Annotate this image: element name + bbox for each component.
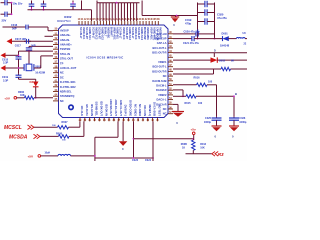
capacitor C02A	[193, 32, 196, 35]
svg-text:+5V: +5V	[28, 154, 35, 158]
offpage arrow	[1, 53, 6, 58]
svg-text:1K: 1K	[182, 147, 185, 150]
pin 47 right, name BO2-OUT-L	[168, 65, 173, 68]
pin 46 right, name VREF1	[168, 61, 173, 64]
pin 42 bottom, name NO-CON	[142, 118, 145, 122]
svg-text:AGND-SC3: AGND-SC3	[128, 27, 131, 40]
svg-text:C023: C023	[132, 159, 139, 161]
pin 49 right, name NC	[168, 75, 173, 78]
pin 44 right, name BO1-OUT-R	[168, 51, 173, 54]
pin 56 left, name STAL-OUT	[53, 57, 59, 60]
svg-text:1000p: 1000p	[239, 121, 247, 124]
pin 45 right, name	[168, 56, 173, 59]
ground arrow 0	[122, 121, 125, 141]
capacitor C011	[42, 1, 45, 5]
node junction	[176, 15, 178, 17]
pin 12 top, name SC1-IN-RT	[84, 21, 87, 25]
svg-text:AGND-SC2: AGND-SC2	[100, 27, 103, 40]
svg-text:10K: 10K	[200, 147, 205, 150]
svg-text:R006: R006	[18, 91, 25, 94]
pin 32 top, name AVDD-MN1	[145, 21, 148, 25]
svg-text:R015: R015	[185, 102, 192, 105]
ground 0	[229, 124, 239, 128]
wire DVDD riser	[93, 137, 96, 161]
svg-text:AVDD-SC3: AVDD-SC3	[122, 27, 125, 40]
svg-text:R00B: R00B	[181, 143, 187, 146]
pin 62 left, name D-CTRL-SD2	[53, 85, 59, 88]
svg-text:+5V: +5V	[4, 96, 11, 100]
resistor R014	[197, 83, 208, 86]
wire drops to IC top pins	[96, 3, 99, 21]
svg-text:SC3-IN-RT: SC3-IN-RT	[125, 27, 128, 40]
wire ANA-IN- row	[45, 35, 54, 38]
pin 52 left, name ANA-IN-	[53, 38, 59, 41]
pin 37 bottom, name ADR-CL-OUT	[117, 118, 120, 122]
pin 43 bottom, name RESET-Q	[146, 118, 149, 122]
wire row6	[173, 73, 214, 76]
pin 31 top, name MONO-INP	[142, 21, 145, 25]
capacitor C019	[17, 73, 20, 75]
pin 60 left, name DC	[53, 76, 59, 79]
ground 0	[212, 124, 222, 128]
diode D002	[211, 57, 218, 62]
wire row1	[173, 32, 193, 35]
pin 29 bottom, name I2C-CLK	[79, 118, 82, 122]
svg-text:9K: 9K	[231, 60, 234, 63]
pin 43 right, name BO1-OUT-L	[168, 47, 173, 50]
svg-text:10K: 10K	[20, 94, 25, 97]
pin 25 top, name SC3-IN-RT	[123, 21, 126, 25]
svg-text:C02A 47u 25v: C02A 47u 25v	[184, 31, 201, 34]
svg-text:IC002: IC002	[64, 15, 72, 19]
wire to D4	[19, 78, 36, 81]
node junctions	[197, 38, 199, 40]
svg-text:D002: D002	[219, 60, 226, 63]
pin 33 bottom, name I2S-DK-OUT	[98, 118, 101, 122]
net R3	[212, 152, 218, 157]
pin 33 top, name VSUP-ADC	[148, 21, 151, 25]
pin 53 left, name ANA-ND+	[53, 43, 59, 46]
svg-text:1000p: 1000p	[204, 121, 212, 124]
pin 13 top, name AGND-SC1	[87, 21, 90, 25]
pin 57 left, name TP	[53, 62, 59, 65]
svg-text:10P: 10P	[22, 38, 27, 41]
pin 65 left, name NC	[53, 100, 59, 103]
pin 32 bottom, name I2S-NB-SEL	[93, 118, 96, 122]
wire crystal row	[6, 67, 25, 70]
pin 19 top, name AVDD-BI1	[105, 21, 108, 25]
svg-text:MR204*5C0: MR204*5C0	[57, 20, 71, 23]
svg-text:SC1-IN-LT: SC1-IN-LT	[79, 27, 82, 39]
wire STAL-OUT	[39, 56, 42, 68]
pin 17 top, name AGND-SC2	[99, 21, 102, 25]
pin 30 bottom, name I2C-DATA	[83, 118, 86, 122]
svg-text:10uH: 10uH	[45, 152, 51, 154]
wire bottom rail	[95, 157, 153, 160]
svg-text:3.3P: 3.3P	[3, 79, 8, 82]
pin 44 bottom, name DACA-SUB	[151, 118, 154, 122]
pin 55 left, name STAL-IN	[53, 53, 59, 56]
pin 36 top, name AVDD-RF1	[157, 21, 160, 25]
svg-text:AVDD-MN1: AVDD-MN1	[146, 27, 149, 40]
svg-text:C017: C017	[15, 38, 22, 41]
pin 27 top, name SC4-IN-LT	[129, 21, 132, 25]
wire to C024	[152, 121, 155, 161]
pin 40 bottom, name NC-GND1	[132, 118, 135, 122]
capacitor C025	[215, 117, 218, 118]
svg-text:SC3-IN-LT: SC3-IN-LT	[119, 27, 122, 39]
svg-text:AVDD-SC2: AVDD-SC2	[94, 27, 97, 40]
resistor R007	[58, 126, 69, 129]
pin 50 right, name DACM-SUB	[168, 79, 173, 82]
svg-text:C019: C019	[2, 76, 9, 79]
svg-text:D: D	[214, 50, 216, 53]
resistor R006	[24, 96, 34, 99]
svg-text:SC4-IN-LT: SC4-IN-LT	[131, 27, 134, 39]
pin 10 top, name SC1-IN-LT	[78, 21, 81, 25]
wire top bus	[97, 1, 140, 4]
capacitor C010	[30, 1, 33, 5]
capacitor C015	[1, 13, 5, 16]
svg-text:C021 47u 25v: C021 47u 25v	[183, 42, 199, 45]
capacitor C022	[198, 3, 205, 6]
capacitor C023	[198, 11, 205, 14]
wire row7 + resistor R016 100	[173, 83, 197, 86]
capacitor C018	[17, 54, 20, 57]
pin 28 top, name AVDD-SC4	[133, 21, 136, 25]
svg-text:100: 100	[208, 81, 213, 84]
offpage arrow	[1, 65, 6, 70]
svg-text:3.3P: 3.3P	[3, 62, 8, 65]
pin 30 top, name AGND-SC4	[139, 21, 142, 25]
pin 11 top, name AVDD-SC1	[81, 21, 84, 25]
inductor L001	[237, 38, 246, 39]
pin 21 top, name VREF-ADC	[111, 21, 114, 25]
svg-text:SC4-IN-RT: SC4-IN-RT	[137, 27, 140, 40]
capacitor C024	[198, 20, 205, 23]
wire AVDD rail	[28, 8, 92, 11]
svg-text:MCSDA: MCSDA	[9, 134, 28, 140]
wire STAL-IN	[19, 50, 54, 53]
pin 56 right, name NC	[168, 108, 173, 111]
svg-text:BI-IN-LT: BI-IN-LT	[104, 27, 107, 37]
svg-text:56P: 56P	[31, 44, 36, 47]
pin 35 top, name CAP-ADCM	[154, 21, 157, 25]
svg-text:SC2-IN-RT: SC2-IN-RT	[97, 27, 100, 40]
pin 42 right, name CAP-LA	[168, 42, 173, 45]
svg-text:IC004 SC02 MR204*5C: IC004 SC02 MR204*5C	[87, 56, 125, 60]
pin 18 top, name BI-IN-LT	[102, 21, 105, 25]
svg-text:R016: R016	[194, 77, 201, 80]
IC pin1 mark	[69, 105, 73, 109]
inductor L002	[58, 154, 71, 156]
pin 61 left, name D-CTRL-SD1	[53, 81, 59, 84]
IC IC002 body	[59, 25, 169, 118]
capacitor C014	[1, 1, 5, 4]
pin 24 top, name AVDD-SC3	[120, 21, 123, 25]
node junction on bus	[116, 2, 118, 4]
wire to R3	[186, 152, 212, 155]
svg-text:C018: C018	[2, 58, 9, 61]
wire to top-right ground	[141, 1, 144, 16]
offpage arrow	[7, 38, 13, 44]
pin 58 left, name AUD-CL-OUT	[53, 67, 59, 70]
pin 41 bottom, name NC-GND2	[137, 118, 140, 122]
wire row3	[173, 51, 248, 54]
node junction	[11, 2, 13, 4]
svg-text:AVDD-SC1: AVDD-SC1	[82, 27, 85, 40]
crystal X001	[22, 64, 25, 71]
svg-text:VSUP-ADC: VSUP-ADC	[149, 27, 152, 40]
pin 15 top, name AVDD-SC2	[93, 21, 96, 25]
svg-text:100: 100	[198, 102, 203, 105]
pin 14 top, name SC2-IN-LT	[90, 21, 93, 25]
pin 40 right, name CAP-LM	[168, 32, 173, 35]
pin 22 top, name AGND-BI1	[114, 21, 117, 25]
svg-text:MCSCL: MCSCL	[4, 125, 22, 131]
svg-text:C025: C025	[205, 117, 212, 120]
ground 0	[172, 110, 184, 114]
capacitor C021	[189, 37, 192, 40]
resistor R013	[192, 140, 195, 150]
svg-text:16.432M: 16.432M	[35, 72, 45, 75]
diode D001	[223, 36, 229, 41]
wire row5 + resistor	[173, 68, 221, 71]
resistor R015	[186, 95, 196, 98]
wire down to C025	[215, 85, 218, 117]
svg-text:AVDD-SC4: AVDD-SC4	[134, 27, 137, 40]
pin 26 top, name AGND-SC3	[126, 21, 129, 25]
wire down to C026	[233, 96, 236, 116]
capacitor C012	[72, 1, 75, 5]
pin 41 right, name AWKEUP	[168, 37, 173, 40]
pin 63 left, name NDR-SEL	[53, 90, 59, 93]
svg-text:AGND-BI1: AGND-BI1	[116, 27, 119, 39]
pin 54 left, name TESTEN	[53, 48, 59, 51]
pin 53 right, name VREF2	[168, 94, 173, 97]
pin 52 right, name DACM-R	[168, 89, 173, 92]
svg-text:MONO-INP: MONO-INP	[143, 27, 146, 40]
pin 31 bottom, name I2S-AD-IN	[88, 118, 91, 122]
ground 0 top-right	[174, 16, 177, 18]
pin 38 bottom, name DVSUP-1	[122, 118, 125, 122]
wire pin to ground right of IC	[173, 103, 178, 106]
svg-text:R013: R013	[200, 143, 206, 146]
svg-text:C024: C024	[145, 159, 152, 161]
pin 20 top, name BI-IN-RT	[108, 21, 111, 25]
wire C016 row	[3, 26, 24, 29]
wire row9 + resistor R015	[173, 95, 186, 98]
svg-text:C026: C026	[239, 117, 246, 120]
svg-text:+5v: +5v	[191, 128, 197, 132]
pin 16 top, name SC2-IN-RT	[96, 21, 99, 25]
pin 51 left, name ANA-IN+	[53, 34, 59, 37]
svg-text:D4: D4	[30, 80, 34, 84]
capacitor C017	[24, 40, 26, 43]
svg-text:AGND-SC1: AGND-SC1	[88, 27, 91, 40]
svg-text:R007: R007	[62, 121, 69, 124]
pin 59 left, name NC	[53, 71, 59, 74]
svg-text:SC1-IN-RT: SC1-IN-RT	[85, 27, 88, 40]
pin 48 right, name BO2-OUT-R	[168, 70, 173, 73]
wire	[10, 3, 13, 15]
wire cap bank rails	[196, 3, 199, 39]
pin 54 right, name DACA-L	[168, 98, 173, 101]
svg-text:C017: C017	[15, 45, 22, 48]
pin 34 top, name AGND-MN1	[151, 21, 154, 25]
pin 55 right, name DACA-R	[168, 103, 173, 106]
pin 57 right, name NC	[168, 112, 173, 115]
pin 23 top, name SC3-IN-LT	[117, 21, 120, 25]
svg-text:AGND-SC4: AGND-SC4	[140, 27, 143, 40]
wire branch to R00B	[134, 137, 194, 140]
wire to C023	[132, 121, 135, 158]
capacitor C016	[24, 26, 26, 29]
pin 39 bottom, name DVDD-CORE	[127, 118, 130, 122]
pin 34 bottom, name I2S-DK-IN	[103, 118, 106, 122]
svg-text:VREF-ADC: VREF-ADC	[113, 27, 116, 40]
pin 29 top, name SC4-IN-RT	[136, 21, 139, 25]
svg-text:SC2-IN-LT: SC2-IN-LT	[91, 27, 94, 39]
pin 36 bottom, name ADR-DA-OUT	[113, 118, 116, 122]
pin 51 right, name DACM-L	[168, 84, 173, 87]
pin 64 left, name STANDBYQ	[53, 95, 59, 98]
capacitor C026	[233, 117, 236, 118]
pin 45 bottom, name NC-TEST	[156, 118, 159, 122]
polarity marks	[30, 7, 33, 9]
pin 50 left, name AVSUP	[53, 29, 59, 32]
svg-text:R3: R3	[218, 152, 224, 157]
wire row4 + diode D002	[173, 59, 211, 62]
svg-text:AVDD-BI1: AVDD-BI1	[107, 27, 110, 39]
capacitor C017 56P	[28, 46, 31, 47]
resistor R008	[59, 135, 70, 138]
wire row8	[173, 88, 183, 91]
svg-text:BI-IN-RT: BI-IN-RT	[110, 27, 113, 37]
resistor R017	[221, 67, 231, 70]
pin 35 bottom, name ADR-WS-OUT	[108, 118, 111, 122]
wire row2 with diode	[173, 37, 189, 40]
